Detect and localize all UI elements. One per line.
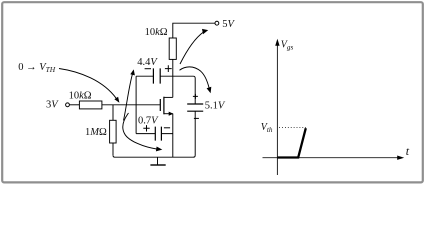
svg-text:5.1V: 5.1V (205, 101, 226, 112)
wire 5.1V cap to bottom (193, 111, 195, 157)
svg-text:0.7V: 0.7V (138, 116, 159, 127)
svg-text:4.4V: 4.4V (137, 57, 158, 68)
annotation swoosh arrow to ground (123, 113, 162, 151)
wire gate (102, 104, 160, 106)
annotation arrow to 5.1V cap (180, 67, 212, 93)
resistor 10k gate (79, 101, 102, 109)
wire drain-node cross to 5.1V cap (136, 76, 195, 104)
graph axis Vgs vertical (275, 39, 293, 175)
annotation arrow resistor to 5V (180, 29, 208, 64)
wire resistor bottom to drain rail (172, 59, 174, 97)
ground (150, 157, 165, 165)
annotation arrow from VTH label to gate wire (59, 69, 119, 103)
svg-text:1MΩ: 1MΩ (85, 127, 107, 138)
wire source rail down (172, 114, 174, 158)
node 3V terminal (46, 99, 69, 110)
resistor 1M (85, 105, 116, 155)
capacitor 5.1V (187, 94, 226, 119)
node 5V terminal (215, 19, 236, 30)
wire 5V to resistor top (173, 23, 215, 38)
annotation arrow up to 4.4V cap (124, 69, 135, 120)
wire bottom (113, 155, 194, 157)
capacitor 0.7V (136, 116, 173, 141)
graph axis t horizontal (263, 144, 410, 160)
svg-text:10kΩ: 10kΩ (69, 91, 92, 102)
graph waveform Vgs ramp (277, 128, 305, 157)
wire gate branch vertical (135, 76, 137, 133)
svg-text:10kΩ: 10kΩ (145, 27, 168, 38)
resistor 10k drain (169, 38, 176, 59)
capacitor 4.4V (137, 57, 172, 84)
wire 3V to resistor (69, 104, 79, 106)
svg-text:3V: 3V (46, 99, 59, 110)
svg-text:5V: 5V (222, 19, 235, 30)
transistor Q1 MOSFET (160, 97, 173, 116)
graph dotted level line (279, 126, 306, 128)
